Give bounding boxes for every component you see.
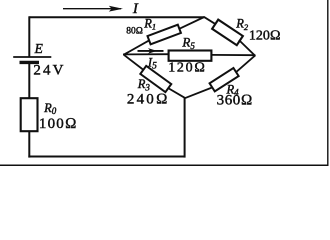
- svg-text:100Ω: 100Ω: [39, 116, 78, 132]
- wire left node to R3: [124, 55, 144, 70]
- svg-text:R5: R5: [181, 35, 195, 51]
- frame bottom border: [0, 164, 329, 166]
- wire left node to R5: [123, 53, 170, 55]
- wire battery to R0: [28, 62, 30, 99]
- resistor R3: [140, 66, 171, 92]
- resistor R0: [21, 98, 38, 131]
- svg-text:R0: R0: [43, 101, 57, 116]
- wire R4 to right node: [236, 55, 255, 72]
- wire top node to R2: [204, 17, 216, 25]
- wire R1 to top node: [179, 17, 204, 29]
- wire R2 to right node: [239, 40, 255, 56]
- resistor R1: [147, 25, 180, 45]
- wire R5 to right node: [211, 54, 256, 56]
- svg-text:120Ω: 120Ω: [249, 28, 281, 43]
- wire bottom-node vertical: [184, 97, 186, 158]
- wire R0 to bottom: [28, 131, 30, 158]
- wire bottom: [28, 156, 185, 158]
- svg-text:E: E: [34, 41, 44, 56]
- svg-text:240Ω: 240Ω: [127, 91, 170, 107]
- svg-text:360Ω: 360Ω: [217, 93, 253, 109]
- resistor R4: [210, 68, 239, 91]
- wire bottom node to R4: [185, 87, 213, 98]
- battery E long plate: [13, 56, 51, 58]
- svg-text:24V: 24V: [33, 63, 65, 79]
- battery E short thick plate: [20, 61, 40, 64]
- current arrow I: [63, 6, 123, 12]
- svg-text:I5: I5: [147, 55, 157, 71]
- resistor R2: [212, 20, 243, 46]
- resistor R5: [169, 51, 212, 61]
- wire left node to R1: [124, 40, 150, 55]
- frame right border: [327, 0, 329, 166]
- wire R3 to bottom node: [168, 88, 185, 98]
- svg-text:R1: R1: [143, 17, 156, 32]
- wire left upper: [28, 16, 30, 56]
- svg-text:120Ω: 120Ω: [168, 61, 207, 76]
- svg-text:I: I: [132, 1, 139, 17]
- svg-text:R2: R2: [235, 17, 249, 32]
- current arrow I5: [138, 48, 164, 54]
- svg-text:80Ω: 80Ω: [126, 27, 143, 37]
- wire top (node to top apex): [29, 16, 204, 18]
